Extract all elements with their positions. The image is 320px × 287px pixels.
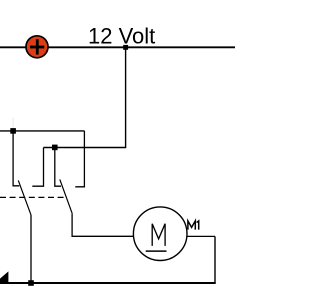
- switch S1 throw contact (right, from 12V net): [32, 148, 43, 187]
- svg-text:12 Volt: 12 Volt: [88, 24, 155, 49]
- wire top rail right segment (12 Volt net): [48, 46, 235, 48]
- wire left-edge net to switch contacts: [0, 130, 84, 132]
- label M1: [188, 221, 199, 230]
- mechanical link (dashed) between switch poles: [0, 196, 66, 198]
- node junction on left-edge net: [10, 128, 16, 134]
- switch S2 throw contact (left, from 12V net): [55, 148, 61, 187]
- switch S1 lever: [18, 180, 31, 215]
- wire from 12V rail down and left to switch throw contacts: [44, 47, 126, 147]
- switch S2 lever: [60, 179, 72, 213]
- faint wire stub above junction: [12, 117, 14, 128]
- motor M symbol: [152, 224, 165, 246]
- node junction at switch pole 2 upper contact: [52, 145, 58, 151]
- ground symbol: [0, 271, 8, 284]
- wire motor to right drop: [187, 235, 215, 237]
- node junction on 12V rail: [123, 45, 128, 50]
- wire switch S1 common to ground rail: [30, 215, 32, 283]
- switch S1 throw contact (left, from left-edge net): [13, 131, 19, 186]
- wire top rail left segment: [0, 46, 26, 48]
- motor M1 body: [133, 207, 187, 261]
- switch S2 throw contact (right, from left-edge net): [75, 131, 84, 187]
- wire ground rail (bottom): [8, 282, 216, 284]
- battery positive terminal (+): [26, 36, 48, 58]
- motor symbol underline: [146, 250, 167, 252]
- wire right drop to ground rail: [214, 236, 216, 283]
- node junction on ground rail: [28, 280, 34, 286]
- wire switch S2 common to motor: [72, 213, 133, 236]
